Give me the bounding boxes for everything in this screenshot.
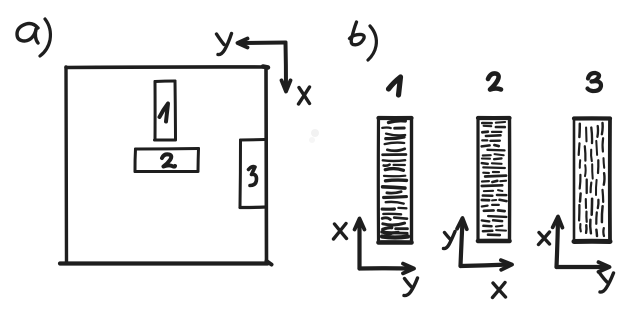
label b) (350, 22, 377, 60)
digit 1 inside rectangle 1 (160, 104, 169, 122)
label y (bar 2 vertical axis) (444, 232, 456, 249)
label a) (17, 19, 50, 56)
bar 1 hatching (wavy horizontal strokes) (382, 121, 408, 238)
label Y (bar 1 horizontal axis) (404, 278, 418, 296)
label 2 (above bar 2) (488, 73, 501, 89)
axes of bar 1 (x up, Y right) (355, 219, 414, 274)
label Y (part a axes) (217, 34, 232, 55)
label x (bar 2 horizontal axis) (493, 283, 506, 298)
bar 2 hatching (short horizontal dashes) (482, 122, 507, 235)
rectangle 1 (vertical, inside square) (155, 81, 176, 140)
axis Y arrow (part a, pointing left) (238, 39, 286, 48)
axis X arrow (part a, pointing down) (282, 43, 291, 92)
digit 2 inside rectangle 2 (162, 154, 175, 166)
bar 3 hatching (vertical dashes) (579, 123, 605, 236)
faint pencil smudge (311, 129, 319, 137)
bar 1 outline (378, 118, 411, 243)
axes of bar 2 (y up, x right) (457, 218, 512, 270)
label 1 (above bar 1) (389, 77, 401, 95)
label x (part a axes) (299, 87, 310, 104)
rectangle 3 (attached to right edge of square) (240, 140, 266, 208)
square outline (part a) (60, 67, 272, 265)
rectangle 2 (horizontal, inside square) (135, 149, 199, 172)
label x (bar 1 vertical axis) (334, 224, 347, 240)
label Y (bar 3 horizontal axis) (600, 273, 614, 292)
label x (bar 3 vertical axis) (539, 232, 550, 245)
axes of bar 3 (x up, Y right) (553, 217, 610, 272)
bar 3 outline (574, 118, 610, 241)
label 3 (above bar 3) (588, 73, 602, 91)
bar 2 outline (478, 118, 510, 241)
digit 3 inside rectangle 3 (249, 167, 257, 186)
